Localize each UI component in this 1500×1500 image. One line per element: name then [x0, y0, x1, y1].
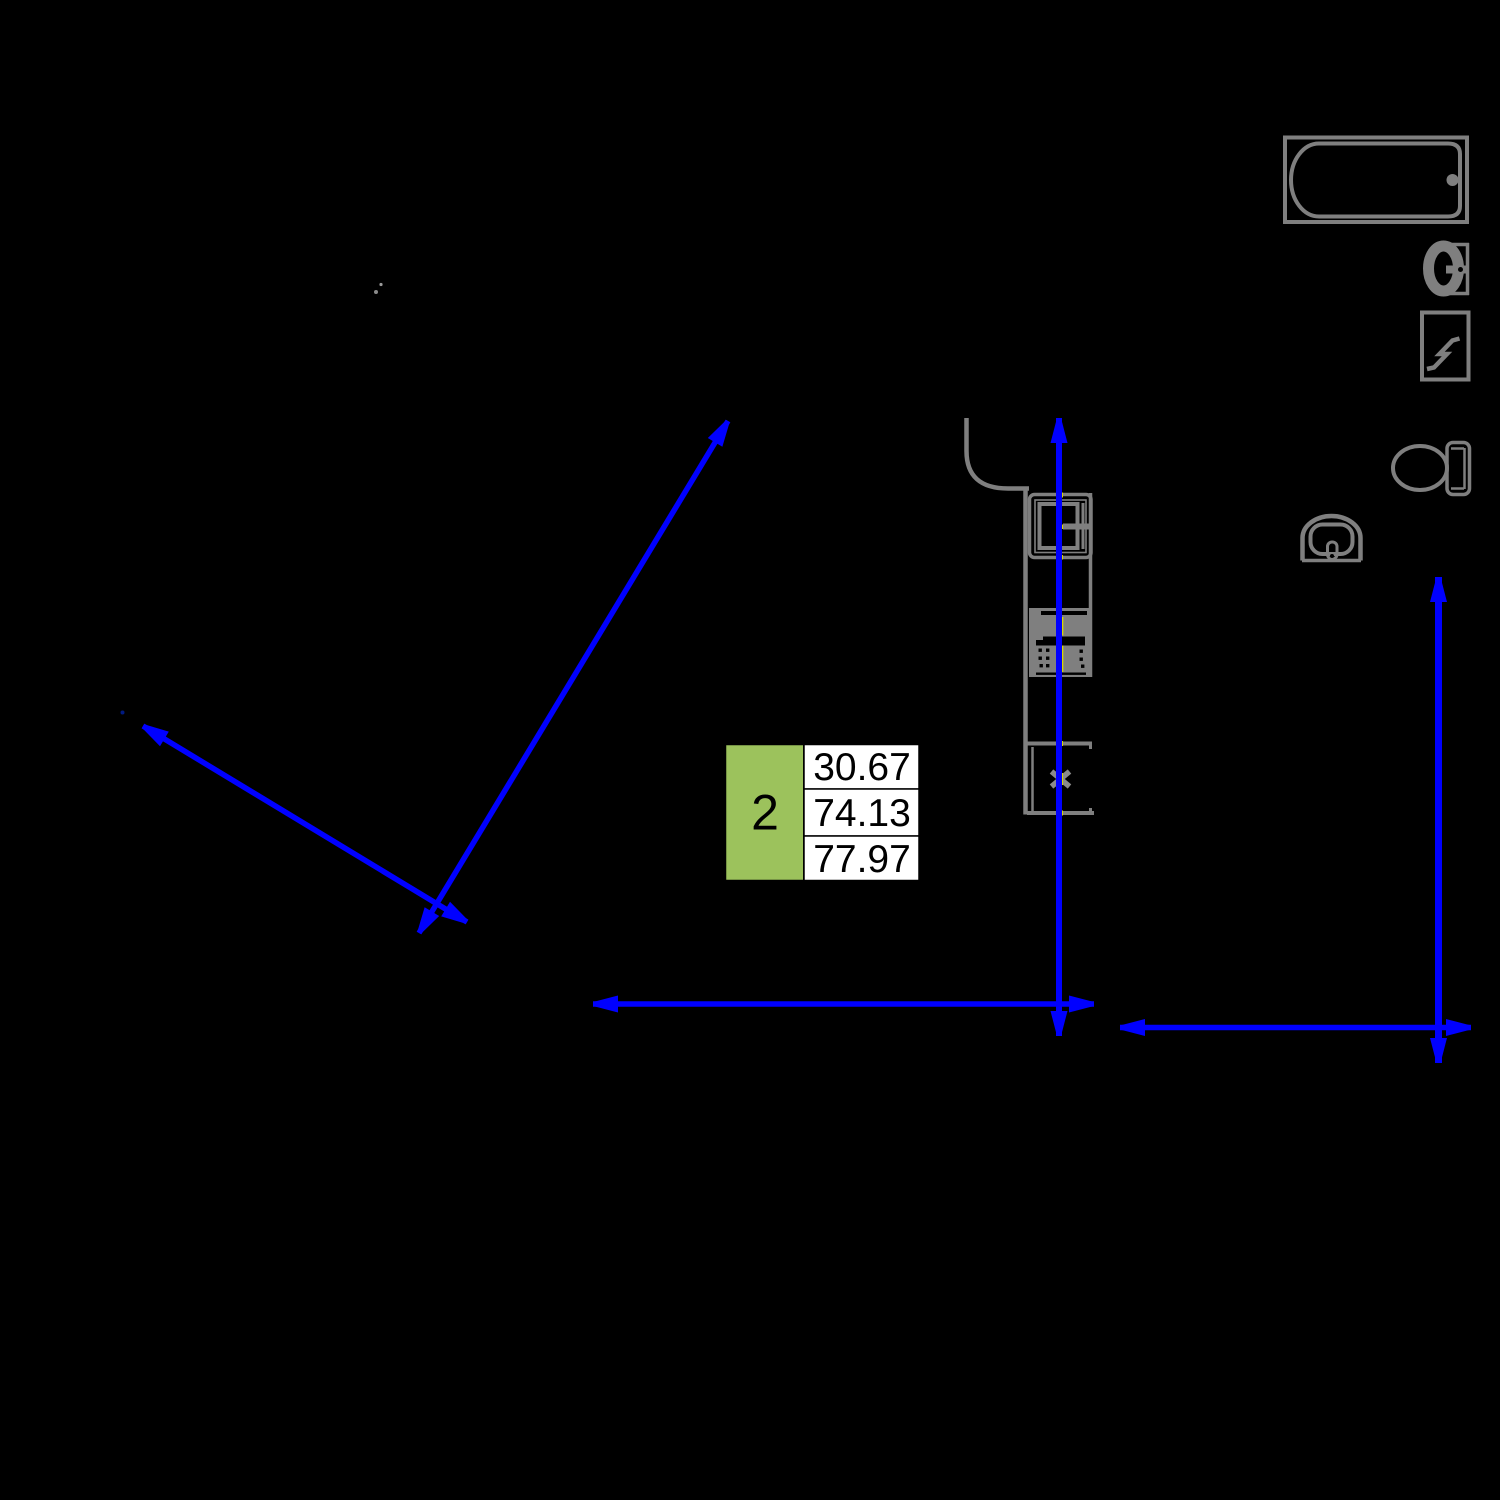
tiny stray dots: [379, 283, 382, 286]
toilet bowl: [1393, 446, 1447, 490]
toilet tank: [1447, 443, 1470, 495]
area table: [725, 744, 920, 881]
bathtub drain: [1447, 174, 1459, 186]
bathtub outer rect: [1285, 138, 1467, 223]
washbasin faucet: [1328, 542, 1338, 559]
dim line C horizontal: [593, 1001, 1094, 1007]
toilet tank inner detail: [1451, 448, 1465, 489]
dim line A diagonal: [419, 421, 728, 933]
svg-text:2: 2: [751, 785, 779, 841]
bidet drain dot: [1458, 267, 1463, 272]
X mark: [1052, 772, 1070, 787]
stove burners and details: [1036, 611, 1087, 675]
washbasin faucet dot: [1330, 554, 1334, 558]
counter right edge: [1089, 493, 1093, 677]
counter left edge: [1023, 489, 1028, 815]
cabinet with X: [1027, 744, 1094, 814]
blue dimension lines: [143, 418, 1471, 1063]
sink unit: [1030, 495, 1092, 558]
bidet bowl ring: [1429, 246, 1459, 291]
lightning bolt: [1427, 339, 1460, 370]
washbasin inner bowl: [1311, 525, 1353, 555]
svg-text:30.67: 30.67: [813, 746, 911, 789]
svg-text:74.13: 74.13: [813, 792, 911, 835]
washbasin outer: [1303, 516, 1361, 561]
bidet bar: [1446, 266, 1467, 274]
yellow gas line dashes: [1061, 493, 1063, 816]
dim line E horizontal: [1120, 1025, 1471, 1031]
dim line B diagonal: [143, 726, 467, 922]
water heater box: [1422, 313, 1469, 380]
bidet frame: [1437, 243, 1469, 295]
stove: [1029, 608, 1091, 677]
washbasin bottom line: [1302, 559, 1361, 563]
svg-text:77.97: 77.97: [813, 838, 911, 881]
dim line F vertical: [1435, 577, 1442, 1063]
door swing: [967, 418, 1030, 489]
bathtub inner tub: [1291, 144, 1460, 217]
dim line D vertical: [1056, 418, 1062, 1036]
